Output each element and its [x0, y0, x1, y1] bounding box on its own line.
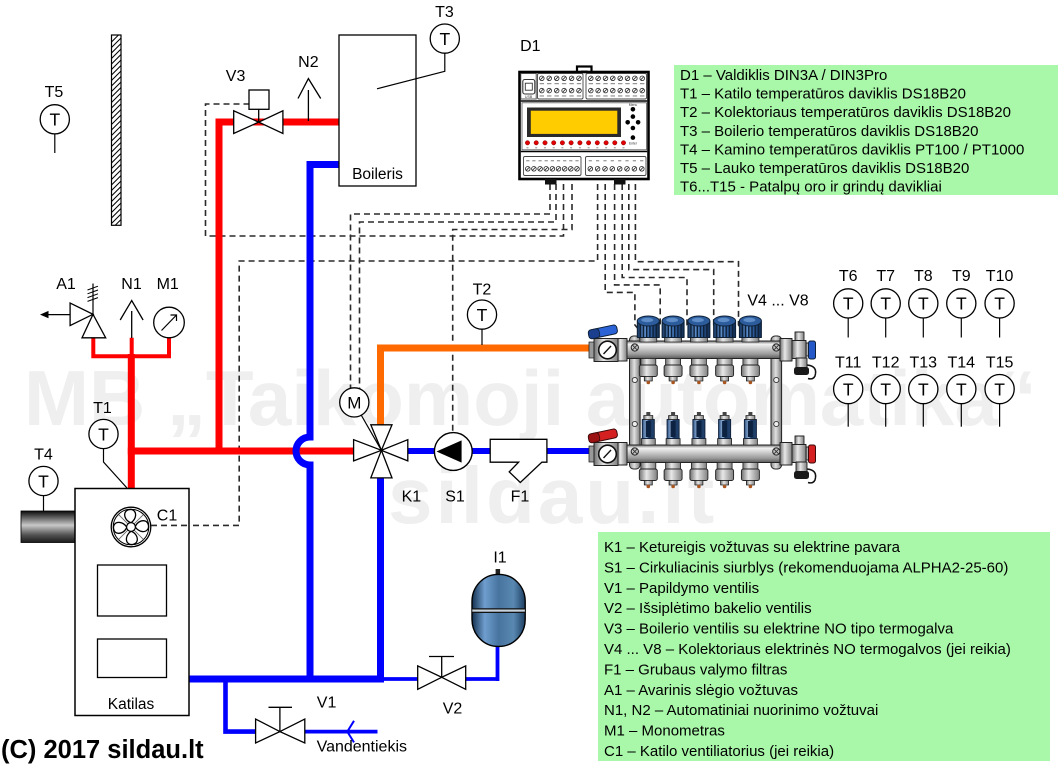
- sensor T4: [29, 447, 58, 496]
- svg-text:T: T: [98, 424, 109, 444]
- svg-text:M1: M1: [157, 276, 179, 293]
- svg-text:F1: F1: [511, 489, 530, 506]
- filter F1: [490, 439, 547, 482]
- wire D1 to pump S1: [453, 184, 572, 433]
- svg-text:T: T: [880, 294, 891, 314]
- outside wall hatched: [112, 33, 122, 230]
- svg-text:M1 – Monometras: M1 – Monometras: [604, 723, 725, 740]
- svg-text:T: T: [38, 471, 49, 491]
- sensor T3: [430, 4, 459, 53]
- svg-text:Katilas: Katilas: [108, 696, 155, 713]
- svg-text:T5 – Lauko temperatūros davikl: T5 – Lauko temperatūros daviklis DS18B20: [680, 160, 969, 177]
- svg-text:Vandentiekis: Vandentiekis: [317, 739, 407, 756]
- fan C1: [111, 507, 151, 547]
- svg-text:F1 – Grubaus valymo filtras: F1 – Grubaus valymo filtras: [604, 661, 787, 678]
- sensor T2: [467, 282, 496, 330]
- D1 LED indicators: [525, 141, 625, 145]
- svg-text:V4 ... V8 – Kolektoriaus elekt: V4 ... V8 – Kolektoriaus elektrinės NO t…: [604, 641, 1011, 658]
- svg-text:T11: T11: [835, 355, 861, 372]
- svg-text:T3: T3: [435, 4, 454, 21]
- svg-text:K1: K1: [402, 489, 422, 506]
- svg-text:T14: T14: [948, 355, 976, 372]
- wire D1 to thermo head V8: [635, 184, 744, 332]
- svg-text:N2: N2: [298, 54, 319, 71]
- D1 top terminal blocks: [538, 74, 584, 100]
- sensor T1: [89, 400, 118, 449]
- manifold supply bar: [620, 341, 787, 359]
- sensor T10: [985, 268, 1014, 338]
- svg-text:V4 ... V8: V4 ... V8: [747, 293, 808, 310]
- svg-text:K1 – Ketureigis vožtuvas su el: K1 – Ketureigis vožtuvas su elektrine pa…: [604, 539, 901, 556]
- svg-text:T2 – Kolektoriaus temperatūros: T2 – Kolektoriaus temperatūros daviklis …: [680, 104, 1011, 121]
- svg-text:C1: C1: [157, 508, 178, 525]
- svg-text:T: T: [918, 379, 929, 399]
- boiler Katilas: [75, 489, 189, 716]
- pump S1: [434, 433, 472, 471]
- legend box sensors: [674, 65, 1058, 195]
- svg-text:USB: USB: [525, 95, 533, 99]
- svg-text:D1: D1: [520, 38, 541, 55]
- sensor T8: [909, 268, 938, 338]
- pipe water inlet: [303, 730, 378, 734]
- supply end fitting with vent and drain: [795, 332, 804, 342]
- svg-text:T: T: [956, 379, 967, 399]
- chimney pipe: [21, 511, 75, 543]
- svg-text:(C) 2017 sildau.lt: (C) 2017 sildau.lt: [1, 736, 204, 764]
- svg-text:T: T: [956, 294, 967, 314]
- svg-text:T5: T5: [45, 84, 64, 101]
- svg-text:M: M: [347, 394, 361, 413]
- wire D1 to thermo head V6: [622, 184, 693, 332]
- pipe hot supply to valve V3 and Boileris: [219, 122, 339, 455]
- svg-text:T2: T2: [473, 282, 492, 299]
- pipe hot main boiler to K1: [128, 448, 356, 455]
- sensor lead T4: [43, 496, 45, 513]
- svg-text:T10: T10: [986, 268, 1014, 285]
- svg-text:C1 – Katilo ventiliatorius (je: C1 – Katilo ventiliatorius (jei reikia): [604, 743, 834, 760]
- svg-text:T9: T9: [952, 268, 971, 285]
- thermo actuator V7: [716, 337, 733, 342]
- svg-text:I1: I1: [493, 550, 506, 567]
- safety valve A1: [40, 284, 106, 338]
- pipe safety group manifold: [91, 338, 171, 356]
- svg-text:T: T: [477, 305, 488, 325]
- air vent N1: [120, 301, 143, 339]
- svg-text:T4: T4: [34, 447, 53, 464]
- four-way valve K1: [354, 425, 408, 478]
- thermo actuator V5: [665, 337, 682, 342]
- sensor lead T3: [377, 54, 445, 89]
- svg-text:T: T: [439, 29, 450, 49]
- svg-text:T: T: [880, 379, 891, 399]
- svg-text:A1: A1: [56, 276, 76, 293]
- svg-text:V3: V3: [226, 68, 246, 85]
- svg-text:T13: T13: [910, 355, 938, 372]
- pipe Boileris return (blue, with hop over red): [296, 165, 339, 680]
- svg-text:T: T: [918, 294, 929, 314]
- wire D1 to fan C1: [151, 184, 598, 525]
- svg-text:T12: T12: [872, 355, 900, 372]
- pipe boiler riser: [128, 354, 135, 492]
- flow meter loop 4: [718, 439, 732, 446]
- svg-text:A1 – Avarinis slėgio vožtuvas: A1 – Avarinis slėgio vožtuvas: [604, 682, 798, 699]
- svg-text:T: T: [843, 379, 854, 399]
- svg-text:T7: T7: [876, 268, 895, 285]
- svg-text:N1, N2 – Automatiniai nuorinim: N1, N2 – Automatiniai nuorinimo vožtuvai: [604, 702, 878, 719]
- sensor T13: [909, 355, 938, 427]
- pipe K1 bottom drop: [377, 476, 384, 679]
- sensor T15: [985, 355, 1014, 427]
- D1 USB port: [521, 74, 536, 100]
- expansion vessel I1: [472, 569, 525, 646]
- wire D1 to thermo head V7: [629, 184, 720, 332]
- svg-text:T1 – Katilo temperatūros davik: T1 – Katilo temperatūros daviklis DS18B2…: [680, 86, 966, 103]
- svg-text:D1 – Valdiklis DIN3A / DIN3Pro: D1 – Valdiklis DIN3A / DIN3Pro: [680, 67, 887, 84]
- thermo actuator V8: [742, 337, 759, 342]
- return ball valve with thermometer (red lever): [589, 446, 597, 462]
- svg-text:T: T: [843, 294, 854, 314]
- svg-text:V1 – Papildymo ventilis: V1 – Papildymo ventilis: [604, 580, 759, 597]
- sensor T6: [834, 268, 863, 338]
- wire D1 to thermo head V5: [615, 184, 667, 332]
- manifold mounting brackets: [630, 336, 641, 469]
- valve V3 with thermo actuator: [234, 90, 283, 134]
- sensor T7: [871, 268, 900, 338]
- return end fitting with drain: [795, 436, 804, 446]
- svg-text:T6: T6: [839, 268, 858, 285]
- sensor lead T1: [104, 449, 128, 489]
- pipe K1 to pump to filter to collector: [404, 448, 597, 454]
- legend box components: [598, 532, 1050, 761]
- svg-text:Enter: Enter: [629, 142, 638, 146]
- svg-text:T15: T15: [986, 355, 1014, 372]
- pipe return main bottom: [186, 676, 384, 683]
- manometer M1: [154, 307, 185, 338]
- svg-text:S1 – Cirkuliacinis siurblys (r: S1 – Cirkuliacinis siurblys (rekomenduoj…: [604, 559, 1008, 576]
- wire D1 to valve V3: [206, 104, 564, 236]
- manifold return bar: [620, 445, 787, 463]
- svg-text:T: T: [994, 379, 1005, 399]
- wire D1 to K1 motor b: [360, 184, 557, 389]
- sensor T14: [947, 355, 976, 427]
- sensor T5: [40, 84, 69, 153]
- wire D1 to K1 motor a: [351, 184, 551, 388]
- svg-text:T1: T1: [93, 400, 112, 417]
- pipe supply K1 to collector (orange): [381, 348, 598, 426]
- pipe to expansion vessel via V2: [384, 643, 498, 681]
- svg-text:V3 – Boilerio ventilis su elek: V3 – Boilerio ventilis su elektrine NO t…: [604, 621, 954, 638]
- svg-text:V2: V2: [443, 701, 463, 718]
- svg-text:T4 – Kamino temperatūros davik: T4 – Kamino temperatūros daviklis PT100 …: [680, 141, 1024, 158]
- valve V2: [418, 657, 466, 690]
- svg-text:V1: V1: [317, 695, 337, 712]
- air vent N2: [298, 79, 321, 121]
- flow meter loop 2: [666, 439, 680, 446]
- flow meter loop 1: [641, 439, 655, 446]
- supply ball valve with thermometer (blue lever): [589, 342, 597, 358]
- D1 LCD display: [522, 103, 647, 150]
- sensor lead T2: [481, 329, 483, 345]
- thermo actuator V6: [690, 337, 707, 342]
- svg-text:N1: N1: [121, 276, 142, 293]
- svg-text:Boileris: Boileris: [352, 166, 403, 183]
- sensor T9: [947, 268, 976, 338]
- flow meter loop 3: [692, 439, 706, 446]
- svg-text:T: T: [994, 294, 1005, 314]
- svg-text:T6...T15 - Patalpų oro ir grin: T6...T15 - Patalpų oro ir grindų davikli…: [680, 179, 942, 196]
- motor M of valve K1: [360, 413, 381, 450]
- svg-text:V2 – Išsiplėtimo bakelio venti: V2 – Išsiplėtimo bakelio ventilis: [604, 600, 812, 617]
- tank Boileris: [339, 35, 416, 186]
- svg-text:T: T: [49, 110, 60, 130]
- svg-text:T8: T8: [914, 268, 933, 285]
- pipe fill branch V1: [226, 676, 258, 732]
- valve V1: [256, 707, 305, 743]
- wire D1 to thermo head V4: [605, 184, 641, 332]
- wire C1 inside boiler: [151, 524, 190, 526]
- thermo actuator V4: [640, 337, 657, 342]
- sensor T11: [834, 355, 863, 427]
- flow arrow on water inlet: [347, 721, 354, 743]
- flow meter loop 5: [743, 439, 757, 446]
- D1 bottom terminal blocks: [524, 157, 582, 176]
- svg-text:Menu: Menu: [629, 103, 638, 107]
- svg-text:T3 – Boilerio temperatūros dav: T3 – Boilerio temperatūros daviklis DS18…: [680, 123, 978, 140]
- controller D1: [520, 67, 649, 185]
- svg-text:S1: S1: [445, 489, 465, 506]
- sensor T12: [871, 355, 900, 427]
- collector manifold V4...V8: [588, 316, 816, 488]
